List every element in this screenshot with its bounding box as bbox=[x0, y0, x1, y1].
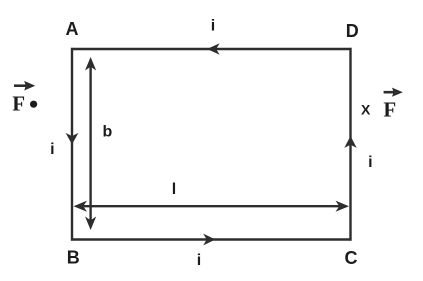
current arrow on left side (points down, A to B) bbox=[66, 133, 79, 145]
force vector F (left, pointing right) bbox=[14, 84, 27, 87]
svg-text:X: X bbox=[361, 102, 371, 118]
svg-text:F: F bbox=[12, 92, 25, 116]
svg-text:b: b bbox=[103, 123, 113, 140]
svg-text:D: D bbox=[346, 21, 359, 41]
svg-text:A: A bbox=[66, 19, 79, 39]
current arrow on top side (points left, D to A) bbox=[207, 43, 220, 55]
current arrow on bottom side (points right, B to C) bbox=[203, 234, 215, 246]
wire AD (top side of loop) bbox=[71, 48, 352, 50]
wire AB (left side of loop) bbox=[71, 48, 73, 241]
svg-text:i: i bbox=[368, 154, 372, 171]
svg-text:C: C bbox=[345, 248, 358, 268]
svg-text:B: B bbox=[67, 248, 80, 268]
wire BC (bottom side of loop) bbox=[71, 238, 352, 240]
svg-text:i: i bbox=[197, 252, 201, 269]
force vector F (right, pointing right) bbox=[384, 91, 395, 94]
current arrow on right side (points up, C to D) bbox=[344, 136, 356, 148]
dimension arrow b (vertical double-headed, width of loop) bbox=[89, 62, 91, 225]
dimension arrow l (horizontal double-headed, length of loop) bbox=[78, 205, 344, 207]
svg-text:i: i bbox=[50, 141, 54, 158]
svg-text:l: l bbox=[172, 181, 176, 198]
field symbol: dot (field out of page) bbox=[30, 101, 37, 108]
svg-text:F: F bbox=[383, 98, 396, 122]
wire DC (right side of loop) bbox=[349, 48, 351, 241]
svg-text:i: i bbox=[211, 18, 215, 35]
